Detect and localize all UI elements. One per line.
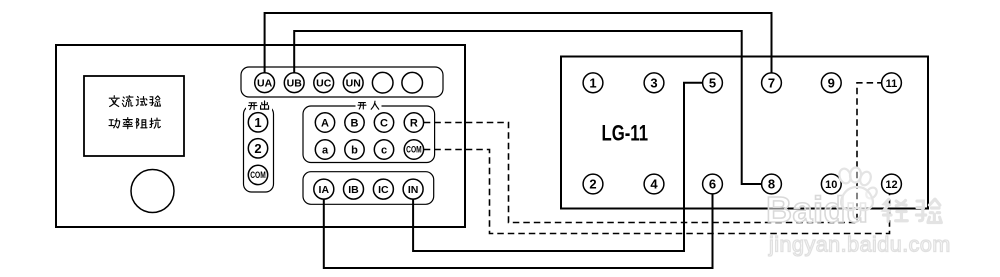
svg-text:6: 6 xyxy=(709,177,716,192)
svg-text:UC: UC xyxy=(316,77,332,89)
svg-text:COM: COM xyxy=(250,170,266,180)
label box xyxy=(84,76,184,156)
svg-text:a: a xyxy=(322,145,329,157)
svg-text:C: C xyxy=(380,118,388,130)
svg-text:2: 2 xyxy=(589,177,596,192)
terminal a xyxy=(315,140,334,159)
relay terminal 12 xyxy=(882,174,902,194)
kairu rounded rect xyxy=(303,106,435,163)
knob circle xyxy=(131,170,174,213)
kaichu rounded rect xyxy=(244,106,274,192)
blank terminal 1 xyxy=(372,72,393,93)
terminal B xyxy=(345,113,364,132)
terminal b xyxy=(345,140,364,159)
terminal A xyxy=(315,113,334,132)
terminal IB xyxy=(344,179,364,199)
watermark paw icon xyxy=(838,167,879,210)
svg-text:UA: UA xyxy=(257,77,273,89)
relay terminal 1 xyxy=(583,73,603,93)
label text 交流试验 xyxy=(109,96,160,107)
svg-text:5: 5 xyxy=(709,75,716,90)
wire UB to terminal 8 xyxy=(294,31,761,184)
watermark Baidu text xyxy=(766,189,869,230)
svg-text:A: A xyxy=(321,118,329,130)
terminal COM (kaichu) xyxy=(248,165,267,184)
terminal 1 (kaichu) xyxy=(248,113,267,132)
svg-text:IB: IB xyxy=(348,184,359,196)
svg-text:COM: COM xyxy=(406,145,422,155)
svg-text:4: 4 xyxy=(650,177,658,192)
dashed wire COM to terminal 12 xyxy=(424,150,890,234)
terminal IC xyxy=(373,179,393,199)
relay terminal 9 xyxy=(821,73,841,93)
svg-text:7: 7 xyxy=(768,75,775,90)
terminal UB xyxy=(284,73,304,93)
svg-text:R: R xyxy=(410,118,418,130)
svg-text:IC: IC xyxy=(378,184,389,196)
relay terminal 6 xyxy=(703,174,723,194)
relay terminal 7 xyxy=(762,73,782,93)
svg-text:12: 12 xyxy=(885,179,897,191)
svg-text:IN: IN xyxy=(408,184,419,196)
terminal IN xyxy=(403,179,423,199)
svg-text:1: 1 xyxy=(254,115,261,130)
LG-11 box outline xyxy=(561,57,928,209)
label text 功率阻抗 xyxy=(109,118,160,129)
relay terminal 11 xyxy=(882,73,902,93)
relay terminal 4 xyxy=(644,174,664,194)
svg-text:jingyan.baidu.com: jingyan.baidu.com xyxy=(768,233,951,257)
relay terminal 5 xyxy=(703,73,723,93)
terminal 2 (kaichu) xyxy=(248,139,267,158)
U-row rounded rect xyxy=(241,67,443,97)
terminal C xyxy=(374,113,393,132)
svg-text:IA: IA xyxy=(319,184,330,196)
svg-text:LG-11: LG-11 xyxy=(602,120,649,145)
svg-text:2: 2 xyxy=(254,141,261,156)
terminal COM (kairu) xyxy=(404,140,423,159)
panel outline xyxy=(56,45,465,227)
wire terminal 5 to IN xyxy=(413,83,702,251)
terminal IA xyxy=(314,179,334,199)
svg-text:UB: UB xyxy=(287,77,303,89)
terminal UN xyxy=(343,73,363,93)
watermark jingyan.baidu.com xyxy=(768,233,951,257)
relay terminal 2 xyxy=(583,174,603,194)
I-row rounded rect xyxy=(303,172,434,205)
relay terminal 8 xyxy=(762,174,782,194)
title 开出 xyxy=(249,101,269,110)
terminal R xyxy=(404,113,423,132)
terminal UA xyxy=(255,73,275,93)
svg-text:9: 9 xyxy=(828,75,835,90)
svg-text:3: 3 xyxy=(650,75,657,90)
dashed wire R to terminal 11 xyxy=(424,83,882,223)
terminal UC xyxy=(314,73,334,93)
svg-text:B: B xyxy=(351,118,359,130)
svg-text:b: b xyxy=(351,145,358,157)
blank terminal 2 xyxy=(402,72,423,93)
svg-text:UN: UN xyxy=(346,77,361,89)
svg-text:1: 1 xyxy=(589,75,596,90)
svg-text:11: 11 xyxy=(886,78,898,90)
title 开入 xyxy=(358,101,379,109)
watermark 经验 characters xyxy=(883,199,941,222)
svg-text:c: c xyxy=(381,145,387,157)
wire terminal 6 to IA xyxy=(324,194,713,268)
relay terminal 10 xyxy=(821,174,841,194)
terminal c xyxy=(374,140,393,159)
wire UA to terminal 7 xyxy=(265,13,772,73)
relay terminal 3 xyxy=(644,73,664,93)
